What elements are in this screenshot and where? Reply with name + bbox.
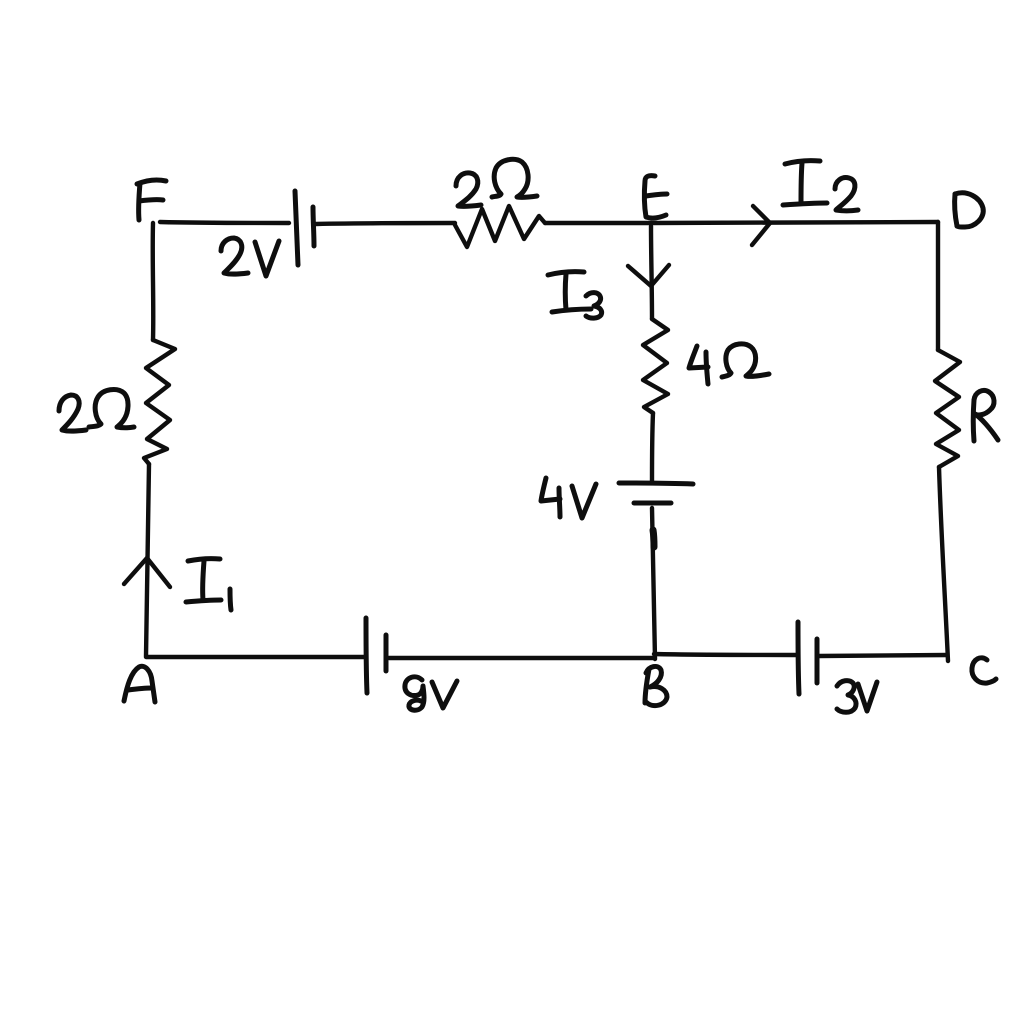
label 4V	[541, 478, 596, 518]
battery 4V short plate	[634, 501, 671, 506]
label 9V	[405, 677, 457, 710]
label I3	[548, 272, 602, 319]
label 4Ω	[689, 344, 769, 384]
battery 2V long plate	[295, 191, 298, 265]
wire E to D with arrow I2	[651, 222, 938, 223]
battery 2V short plate	[313, 207, 314, 246]
battery 9V short plate	[384, 635, 389, 671]
wire 2V to 2Ω resistor	[316, 223, 455, 224]
resistor R (right branch)	[935, 350, 960, 467]
wire B to 3V battery	[654, 654, 796, 655]
wire 3V to C	[819, 655, 947, 656]
ink blob on wire below 4V	[653, 530, 654, 547]
label I1	[186, 559, 231, 610]
node F label	[137, 180, 166, 220]
wire 2Ω to E	[545, 221, 651, 225]
battery 9V long plate	[366, 618, 367, 693]
label I2	[783, 161, 858, 211]
arrow I2 head	[752, 206, 770, 245]
node A label	[124, 666, 155, 702]
label 2V	[221, 238, 279, 276]
resistor 2Ω (top)	[455, 206, 545, 247]
resistor 2Ω (left branch)	[144, 340, 175, 464]
wire C to R (right bottom segment)	[939, 467, 948, 661]
battery 3V long plate	[798, 622, 799, 694]
arrow I3 head (pointing down)	[628, 265, 669, 286]
label 2Ω (top)	[456, 159, 537, 206]
bottom wire A to 9V battery	[146, 655, 365, 659]
wire 4Ω to 4V battery	[652, 413, 653, 481]
label R	[973, 390, 998, 441]
node C label	[972, 658, 996, 683]
node D label	[955, 193, 984, 227]
battery 4V long plate	[619, 483, 693, 484]
wire F to 2Ω (left top segment)	[151, 223, 156, 340]
label 2Ω (left)	[59, 390, 134, 432]
resistor 4Ω (middle branch)	[643, 319, 668, 413]
wire 9V to B	[389, 656, 654, 660]
top wire F to 2V battery	[160, 222, 289, 223]
wire 2Ω to A (left bottom segment)	[146, 464, 149, 656]
battery 3V short plate	[815, 639, 820, 683]
wire R to D (right top segment)	[936, 222, 940, 350]
wire E down to I3 arrow and 4Ω	[651, 226, 652, 319]
arrow I1 (pointing up)	[124, 558, 170, 587]
node B label	[645, 666, 667, 705]
wire 4V to B	[652, 508, 655, 659]
node E label	[644, 176, 667, 218]
label 3V	[837, 681, 877, 713]
